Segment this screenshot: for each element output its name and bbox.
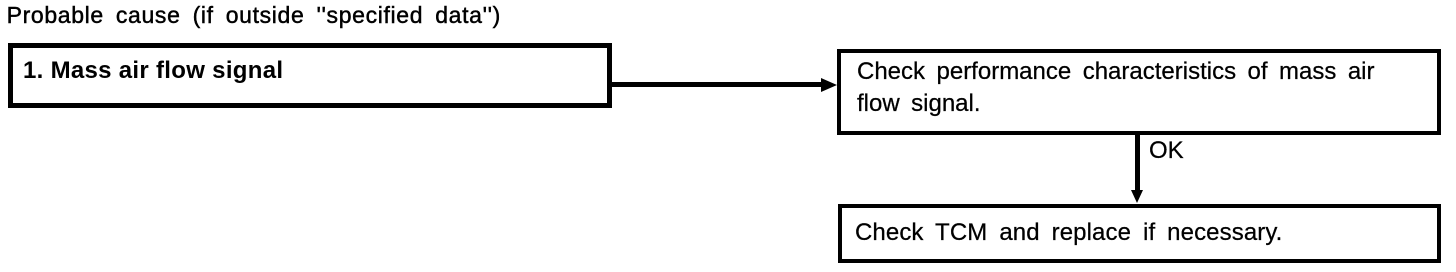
box: 1. Mass air flow signal <box>8 43 613 108</box>
arrowhead: right-pointing <box>821 78 837 92</box>
title: Probable cause (if outside "specified data") <box>7 4 501 27</box>
arrowhead: down-pointing <box>1131 190 1143 203</box>
wire: horizontal arrow shaft <box>612 82 822 87</box>
text: Check TCM and replace if necessary. <box>855 221 1282 245</box>
label: OK <box>1149 139 1184 163</box>
text: 1. Mass air flow signal <box>23 59 283 83</box>
text: Check performance characteristics of mass air flow signal. <box>857 56 1417 121</box>
box: Check performance characteristics <box>837 49 1441 135</box>
box: Check TCM <box>838 204 1441 263</box>
wire: vertical arrow shaft <box>1135 134 1140 192</box>
